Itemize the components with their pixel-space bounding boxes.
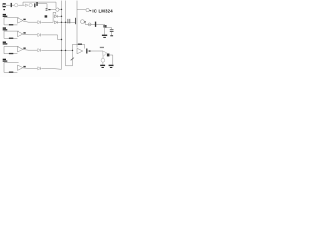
wire node	[53, 12, 56, 22]
wire	[66, 51, 73, 66]
wire	[55, 2, 57, 8]
diode D6	[54, 15, 57, 18]
resistor R5	[9, 38, 13, 39]
connector ring	[88, 23, 91, 26]
svg-text:IC LM324: IC LM324	[92, 8, 113, 13]
wire	[41, 49, 72, 51]
sensor label S4	[3, 59, 8, 62]
microphone MIC1	[2, 3, 4, 7]
wire	[104, 24, 106, 34]
wire	[84, 23, 86, 25]
wire	[18, 4, 24, 6]
wire	[6, 4, 10, 6]
rail B+	[76, 1, 78, 48]
diode D1	[38, 21, 41, 24]
wire	[51, 8, 56, 10]
diode D4	[38, 67, 41, 70]
op-amp U1D	[18, 65, 23, 70]
op-amp U1C	[18, 47, 23, 52]
transistor Q4	[86, 8, 89, 11]
wire loop stage4	[4, 63, 19, 73]
capacitor C7	[86, 49, 87, 54]
wire loop stage3	[4, 46, 19, 53]
wire	[59, 8, 61, 10]
transistor Q8	[103, 51, 107, 57]
transistor Q1	[15, 3, 18, 6]
capacitor C6	[110, 29, 114, 32]
wire	[23, 2, 56, 5]
label U1B	[23, 32, 25, 33]
wire	[41, 35, 61, 40]
wire loop stage2	[4, 31, 19, 38]
capacitor C3	[46, 8, 48, 10]
sensor label S1	[3, 14, 8, 17]
rail V+	[61, 1, 63, 70]
node IC pin	[90, 10, 92, 11]
wire	[57, 21, 75, 23]
capacitor C4	[68, 19, 70, 24]
wire	[23, 21, 37, 22]
wire	[23, 67, 37, 70]
label U1D	[23, 66, 25, 67]
wire	[87, 50, 102, 52]
diode D7	[54, 21, 57, 24]
feedback wire U1E	[73, 44, 85, 51]
resistor R3	[9, 24, 13, 25]
node	[89, 50, 91, 52]
wire	[77, 9, 86, 11]
sensor label S2	[3, 27, 8, 30]
junction dots	[61, 9, 73, 51]
wire	[23, 49, 37, 52]
op-amp U1B	[18, 31, 23, 36]
potentiometer RV1	[71, 58, 74, 61]
transistor Q7	[103, 25, 106, 28]
node	[107, 54, 110, 57]
label Q8	[100, 47, 104, 48]
node	[85, 21, 86, 22]
capacitor C1	[11, 3, 12, 7]
op-amp U2	[77, 48, 83, 54]
wire	[38, 4, 47, 10]
wire	[57, 15, 61, 17]
diode D2	[38, 33, 41, 36]
transistor Q3	[56, 8, 59, 11]
ground	[109, 65, 114, 68]
resistor R2	[48, 9, 50, 10]
resistor R7	[9, 72, 13, 73]
label U1C	[23, 48, 25, 49]
wire	[85, 23, 105, 25]
label U1A	[23, 19, 25, 20]
wire	[23, 33, 37, 36]
wire	[109, 55, 112, 65]
wire loop stage1	[4, 18, 19, 25]
sensor label S3	[3, 42, 8, 45]
ground	[102, 35, 107, 38]
capacitor C2	[34, 2, 38, 7]
wire	[105, 28, 112, 36]
ground	[102, 62, 104, 64]
capacitor C5	[95, 22, 96, 27]
resistor R6	[9, 53, 13, 54]
diode D3	[38, 49, 41, 52]
transistor Q6	[81, 20, 85, 24]
op-amp U1A	[18, 18, 23, 23]
rail GND	[65, 1, 67, 66]
wire	[41, 21, 53, 23]
diode D5	[25, 4, 28, 7]
transistor Q2	[29, 3, 32, 6]
speaker LS1	[102, 57, 104, 59]
ground	[110, 35, 113, 36]
wire	[41, 68, 61, 71]
transistor Q5	[75, 18, 77, 24]
label R4	[45, 15, 48, 17]
resistor R8	[78, 44, 82, 45]
wire	[12, 4, 14, 6]
